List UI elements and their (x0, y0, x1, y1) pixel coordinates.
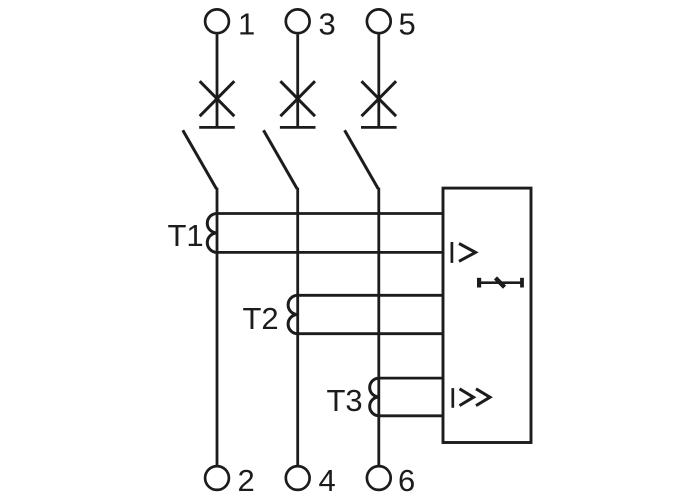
svg-text:3: 3 (319, 7, 336, 42)
svg-text:4: 4 (319, 463, 336, 498)
svg-text:1: 1 (238, 7, 255, 42)
svg-text:6: 6 (398, 463, 415, 498)
svg-text:5: 5 (399, 7, 416, 42)
svg-text:2: 2 (238, 463, 255, 498)
svg-text:T3: T3 (327, 383, 363, 418)
svg-text:T2: T2 (243, 301, 279, 336)
svg-text:T1: T1 (168, 218, 204, 253)
